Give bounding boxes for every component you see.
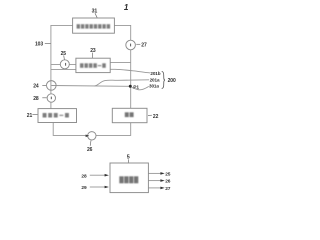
svg-text:21: 21 [27, 113, 33, 119]
oil cooler box 23 [76, 58, 110, 72]
svg-text:31: 31 [92, 9, 98, 15]
svg-text:24: 24 [33, 84, 39, 90]
tick label 28 [42, 97, 46, 99]
valve V24 [47, 81, 57, 91]
svg-text:26: 26 [165, 179, 171, 185]
wire control right output line 1 [148, 172, 161, 174]
text transaxle (katakana blob) [77, 24, 111, 28]
svg-text:28: 28 [33, 96, 39, 102]
svg-text:201a: 201a [150, 77, 160, 82]
text control device (kanji blob) [119, 176, 138, 183]
svg-text:27: 27 [165, 186, 171, 192]
wire oil row top (pipe to oil cooler via pump 25) [51, 63, 76, 65]
tick label 22 [148, 114, 152, 116]
text oil cooler (katakana blob) [80, 63, 106, 68]
tick label 5 [127, 159, 129, 162]
svg-text:1: 1 [124, 3, 129, 12]
arrowhead output 3 [160, 187, 164, 190]
wire transaxle-left to left vertical [51, 25, 73, 109]
svg-text:301a: 301a [149, 84, 159, 89]
wire oil row bottom [51, 68, 76, 70]
tick label 27 [136, 43, 140, 45]
svg-text:201b: 201b [150, 71, 160, 76]
pump P25 [60, 60, 69, 69]
wire control right output line 3 [148, 187, 161, 189]
svg-text:25: 25 [61, 51, 67, 57]
arrowhead output 1 [160, 172, 164, 175]
svg-text:27: 27 [141, 43, 147, 49]
svg-text:26: 26 [87, 147, 93, 153]
text inverter (katakana blob) [43, 113, 69, 118]
junction node P1 [129, 85, 132, 88]
tick label 26 [89, 140, 92, 146]
inverter box 21 [38, 109, 77, 123]
wire control left input line 2 [90, 186, 106, 188]
arrowhead input 1 [105, 174, 109, 177]
battery box 22 [112, 108, 147, 122]
svg-text:P1: P1 [133, 84, 139, 90]
wire oil cooler right top stub [110, 61, 131, 63]
wire oil cooler right bottom stub + leader to 201b [110, 69, 150, 73]
control device box 5 [110, 163, 148, 193]
wire leader to 201a [95, 80, 150, 86]
svg-text:28: 28 [81, 173, 87, 179]
wire control left input line 1 [90, 174, 106, 176]
pump P27 [126, 40, 136, 50]
svg-text:103: 103 [35, 41, 43, 47]
tick label 23 [92, 53, 94, 58]
svg-text:22: 22 [153, 114, 159, 120]
wire control right output line 2 [148, 180, 161, 182]
tick label 31 [95, 13, 97, 18]
pump P26 [88, 132, 96, 140]
svg-text:5: 5 [127, 155, 130, 161]
arrowhead input 2 [105, 186, 109, 189]
arrowhead into pump 26 [86, 135, 90, 138]
wire inverter bottom loop through pump 26 to battery bottom [53, 123, 131, 136]
svg-text:25: 25 [165, 171, 171, 177]
arrowhead output 2 [160, 179, 164, 182]
tick label 21 [32, 114, 37, 116]
transaxle box 31 [73, 18, 115, 33]
wire transaxle-right down through pump 27 to battery top [114, 25, 130, 108]
svg-text:200: 200 [168, 78, 176, 84]
brace for 200 group [162, 71, 165, 88]
tick label 24 [42, 84, 46, 86]
text battery (kanji blob) [125, 112, 134, 117]
svg-text:23: 23 [90, 48, 96, 54]
tick label 103 [45, 42, 51, 44]
tick label 25 [63, 55, 66, 59]
wire leader to 301a [132, 86, 149, 89]
svg-text:29: 29 [81, 185, 87, 191]
wire main middle horizontal from valve 24 to P1 [51, 85, 130, 88]
sensor S28 [47, 94, 55, 102]
